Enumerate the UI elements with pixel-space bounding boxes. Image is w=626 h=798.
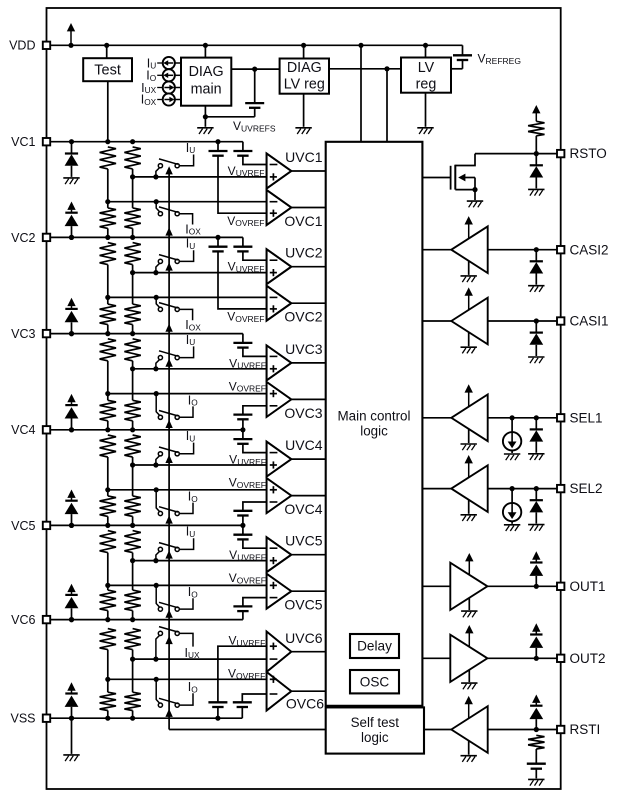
svg-text:Test: Test — [94, 63, 121, 79]
svg-text:VC1: VC1 — [11, 135, 35, 149]
svg-text:Self test: Self test — [351, 715, 400, 730]
svg-text:UVC5: UVC5 — [285, 533, 323, 549]
svg-text:DIAG: DIAG — [189, 64, 224, 80]
svg-text:VSS: VSS — [10, 712, 35, 726]
svg-text:OVC2: OVC2 — [284, 309, 322, 325]
svg-text:VC5: VC5 — [11, 519, 35, 533]
svg-text:LV reg: LV reg — [284, 77, 325, 93]
svg-text:OVC6: OVC6 — [286, 695, 324, 711]
svg-text:OSC: OSC — [360, 675, 390, 690]
svg-text:UVC2: UVC2 — [285, 245, 323, 261]
svg-text:UVC1: UVC1 — [285, 149, 323, 165]
svg-text:VC6: VC6 — [11, 613, 35, 627]
svg-text:UVC3: UVC3 — [285, 341, 323, 357]
svg-text:OVC1: OVC1 — [284, 213, 322, 229]
svg-text:VC2: VC2 — [11, 231, 35, 245]
svg-text:UVC6: UVC6 — [285, 630, 323, 646]
svg-text:VC4: VC4 — [11, 423, 35, 437]
svg-text:reg: reg — [416, 76, 437, 92]
svg-text:RSTO: RSTO — [570, 146, 607, 161]
svg-text:DIAG: DIAG — [287, 60, 322, 76]
svg-text:OUT2: OUT2 — [570, 651, 606, 666]
svg-text:OVC4: OVC4 — [284, 501, 322, 517]
svg-text:OUT1: OUT1 — [570, 579, 606, 594]
svg-text:OVC3: OVC3 — [284, 405, 322, 421]
svg-text:CASI1: CASI1 — [570, 314, 609, 329]
svg-text:Delay: Delay — [357, 638, 392, 653]
svg-text:CASI2: CASI2 — [570, 242, 609, 257]
svg-text:VC3: VC3 — [11, 327, 35, 341]
svg-text:Main control: Main control — [338, 409, 411, 424]
svg-text:UVC4: UVC4 — [285, 437, 323, 453]
svg-text:main: main — [191, 82, 222, 98]
svg-text:logic: logic — [360, 423, 388, 438]
svg-text:logic: logic — [361, 730, 389, 745]
svg-text:SEL2: SEL2 — [570, 481, 603, 496]
svg-text:VDD: VDD — [9, 39, 35, 53]
svg-text:RSTI: RSTI — [570, 722, 601, 737]
svg-text:OVC5: OVC5 — [284, 597, 322, 613]
svg-text:LV: LV — [418, 60, 435, 76]
svg-text:SEL1: SEL1 — [570, 410, 603, 425]
